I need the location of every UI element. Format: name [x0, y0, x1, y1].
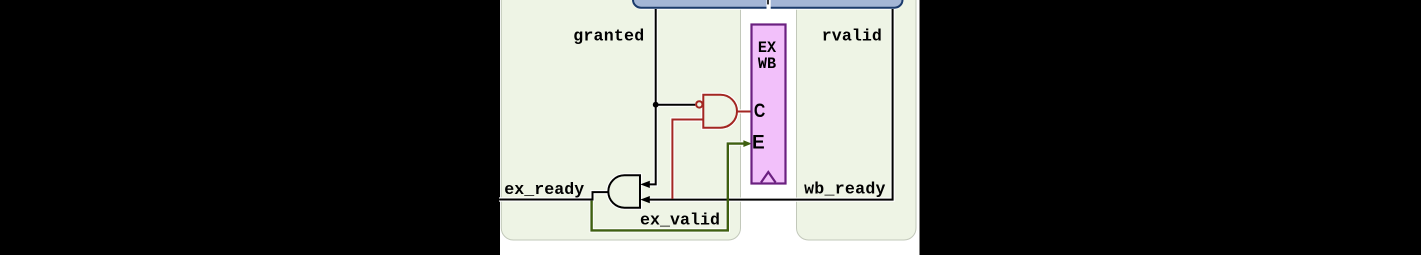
svg-text:granted: granted	[573, 27, 644, 46]
svg-text:C: C	[754, 101, 766, 122]
svg-text:WB: WB	[758, 55, 777, 73]
svg-text:ex_valid: ex_valid	[640, 211, 720, 230]
svg-text:ex_ready: ex_ready	[504, 180, 584, 199]
svg-text:rvalid: rvalid	[822, 27, 882, 46]
svg-text:wb_ready: wb_ready	[804, 179, 885, 198]
svg-text:E: E	[752, 133, 765, 154]
